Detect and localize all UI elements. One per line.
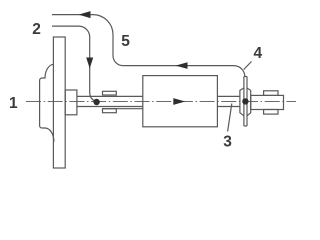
measuring disc left line — [243, 77, 245, 127]
shaft segment right: bottom line — [217, 106, 240, 108]
gearbox box — [143, 76, 218, 127]
shaft segment right: top line — [217, 95, 240, 97]
arrow down on line 2 — [86, 58, 93, 69]
svg-text:5: 5 — [121, 33, 130, 50]
arrow right in gearbox — [173, 98, 185, 105]
support line to gearbox — [103, 108, 143, 110]
shaft segment left: bottom line — [77, 106, 143, 108]
right bearing top rect — [264, 91, 278, 96]
right bearing body — [251, 95, 284, 109]
centerline axis — [26, 101, 296, 103]
shaft segment left: top line — [77, 95, 143, 97]
signal line 5: top run with corner down to return run — [52, 15, 245, 77]
measurement dot left — [93, 99, 99, 105]
leader line for label 4 — [244, 62, 252, 70]
wheel hub profile — [40, 64, 54, 141]
svg-text:1: 1 — [9, 95, 18, 112]
measurement dot right — [242, 98, 248, 104]
svg-text:4: 4 — [254, 45, 263, 62]
leader line for label 3 — [228, 104, 232, 132]
wheel boss rect — [65, 90, 77, 115]
coupling key bottom-left rect — [103, 109, 117, 113]
right bearing bottom rect — [264, 110, 278, 115]
coupling key top-left rect — [103, 91, 117, 95]
svg-text:3: 3 — [223, 133, 232, 150]
wheel rim (left wheel vertical rect) — [53, 37, 65, 168]
arrow left on line 5 top run — [79, 11, 91, 18]
disc bottom edge — [244, 125, 247, 127]
svg-text:2: 2 — [32, 21, 41, 38]
disc hub outline — [240, 88, 251, 116]
disc top edge — [244, 76, 247, 78]
arrow left on return run — [176, 62, 188, 69]
measuring disc right line — [246, 77, 248, 127]
signal line 2: run curving down to measurement dot — [52, 26, 95, 101]
